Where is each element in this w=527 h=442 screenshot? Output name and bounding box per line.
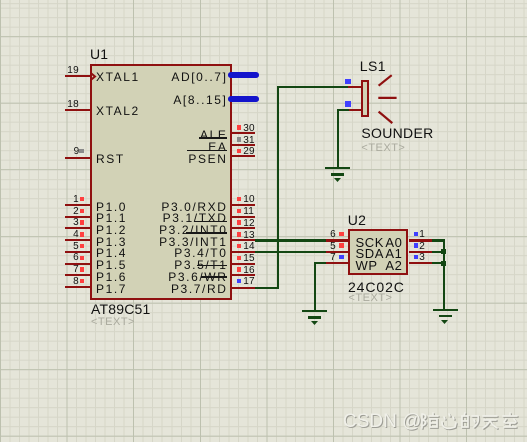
wire sounder vertical riser (277, 86, 279, 289)
U2 pin 1 A0 stub (409, 239, 432, 241)
bus A[8..15] stub (228, 96, 259, 102)
wire P3.7 to sounder (horizontal) (255, 287, 279, 289)
sounder body (361, 80, 369, 118)
sounder sound waves (376, 72, 400, 126)
ground (WP) (302, 310, 327, 312)
U2 pin 7 WP stub (326, 262, 349, 264)
op-amp U1 : AT89C51 microcontroller body (90, 64, 232, 301)
pin 18 XTAL2 (65, 109, 90, 111)
U1 TEXT placeholder (91, 316, 135, 328)
wire P3.4 to U2 SDA (255, 251, 326, 253)
pins 10-17 P3 right stubs (232, 204, 256, 206)
U2 pin 2 A1 stub (409, 251, 432, 253)
pin 9 RST (65, 157, 90, 159)
U2 pin 3 A2 stub (409, 262, 432, 264)
ground (sounder) (325, 167, 350, 169)
junction A2 (441, 261, 446, 266)
P1.0-P1.7 pin names (96, 200, 127, 214)
active-low bars TXD INT0 T1 WR (194, 221, 227, 223)
wire P3.3 to U2 SCK (255, 239, 326, 241)
wires U2 right pins to common (432, 239, 445, 241)
junction A1 (441, 249, 446, 254)
U1 reference label (90, 46, 108, 62)
U1 value label AT89C51 (91, 301, 151, 317)
bus AD[0..7] stub (228, 72, 259, 78)
pin state squares 1-8 (80, 197, 85, 202)
pin 30 ALE (232, 132, 256, 134)
wire to sounder top pin (277, 86, 349, 88)
wire sounder bottom pin to ground (337, 109, 349, 111)
U2 pin 5 SDA stub (326, 251, 349, 253)
pin 19 XTAL1 (65, 75, 90, 77)
SOUNDER label (361, 125, 433, 141)
sounder LS1 (360, 58, 386, 74)
U2 inner pin names (356, 235, 385, 250)
wire WP to ground (314, 262, 327, 264)
numbers 10-17 (243, 194, 255, 205)
IC U2 : 24C02C (348, 212, 366, 228)
pin 31 EA (overbar drawn under ALE) (232, 144, 256, 146)
pin numbers 1-8 (55, 194, 79, 205)
pin 29 PSEN with overbar (232, 155, 256, 157)
squares 10-17 (237, 197, 242, 202)
P3 pin names (130, 200, 228, 214)
watermark (343, 411, 421, 433)
XTAL1 clock input arrow (90, 72, 97, 81)
sounder pin stubs (348, 86, 361, 88)
ground (U2 A pins) (433, 309, 458, 311)
sounder pin squares (345, 79, 351, 85)
U2 pin 6 SCK stub (326, 239, 349, 241)
pins 1-8 P1.0-P1.7 left stubs (65, 204, 90, 206)
